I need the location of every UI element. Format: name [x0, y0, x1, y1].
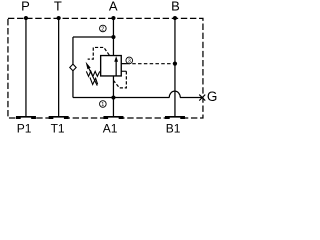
- svg-text:G: G: [207, 89, 218, 104]
- svg-text:T: T: [54, 0, 62, 14]
- svg-text:B1: B1: [166, 122, 181, 136]
- svg-text:3: 3: [128, 58, 131, 64]
- svg-text:P: P: [21, 0, 30, 14]
- svg-text:2: 2: [101, 27, 104, 33]
- svg-text:T1: T1: [51, 122, 65, 136]
- svg-text:B: B: [171, 0, 180, 14]
- svg-text:A: A: [109, 0, 118, 14]
- svg-text:1: 1: [101, 102, 104, 108]
- svg-text:A1: A1: [103, 122, 118, 136]
- svg-text:P1: P1: [17, 122, 32, 136]
